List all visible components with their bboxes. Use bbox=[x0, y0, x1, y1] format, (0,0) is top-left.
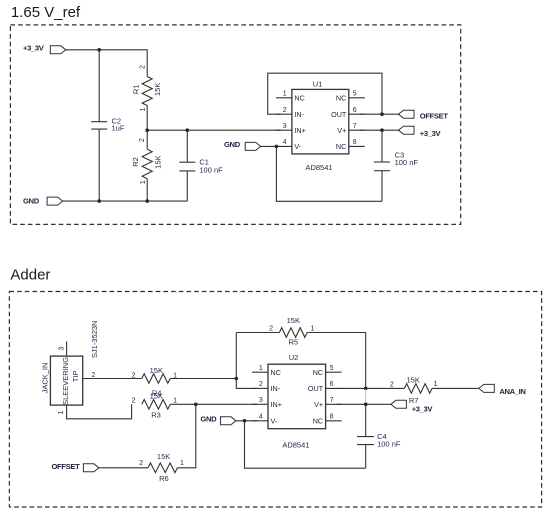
wire R7 to ANA_IN bbox=[432, 387, 479, 389]
svg-text:1: 1 bbox=[140, 180, 147, 184]
svg-text:15K: 15K bbox=[287, 316, 300, 325]
net flag OFFSET (input, adder) bbox=[52, 462, 99, 472]
svg-text:7: 7 bbox=[353, 123, 357, 130]
U2 pin 3 IN+ stub bbox=[252, 403, 268, 405]
resistor R5 15K feedback (horizontal) bbox=[279, 316, 307, 347]
wire V+ to +3_3V flag (adder) bbox=[337, 403, 391, 405]
svg-text:NC: NC bbox=[294, 93, 304, 102]
power flag +3_3V (at U2 V+) bbox=[391, 400, 434, 413]
svg-text:+3_3V: +3_3V bbox=[23, 43, 45, 52]
svg-text:NC: NC bbox=[271, 368, 281, 377]
U2 pin 8 NC stub bbox=[326, 420, 342, 422]
svg-text:R5: R5 bbox=[289, 337, 299, 346]
svg-text:+3_3V: +3_3V bbox=[412, 404, 434, 413]
svg-text:15K: 15K bbox=[150, 392, 163, 401]
wire V- to C3 ground return bbox=[276, 146, 382, 201]
svg-text:TIP: TIP bbox=[71, 370, 80, 382]
svg-text:GND: GND bbox=[200, 414, 217, 423]
U1 pin 1 NC stub bbox=[276, 97, 292, 99]
svg-text:2: 2 bbox=[139, 460, 143, 467]
wire R4 out to feedback node bbox=[170, 378, 236, 380]
svg-text:3: 3 bbox=[259, 397, 263, 404]
svg-text:Adder: Adder bbox=[10, 266, 50, 283]
wire R6 riser to IN+ line bbox=[177, 404, 195, 468]
V_ref section dashed boundary bbox=[10, 25, 460, 225]
jack pin 2 TIP wire to R4 bbox=[83, 378, 142, 380]
U2 pin 5 NC stub bbox=[326, 371, 342, 373]
resistor R4 15K (horizontal) bbox=[142, 366, 170, 397]
U1 pin 5 NC stub bbox=[349, 97, 365, 99]
svg-text:SJ1-3523N: SJ1-3523N bbox=[90, 321, 99, 359]
svg-text:1: 1 bbox=[180, 460, 184, 467]
svg-text:2: 2 bbox=[390, 381, 394, 388]
svg-text:6: 6 bbox=[353, 107, 357, 114]
svg-text:100 nF: 100 nF bbox=[199, 165, 223, 174]
svg-text:IN-: IN- bbox=[294, 110, 304, 119]
capacitor C1 100nF bbox=[179, 130, 223, 201]
wire R3 out to IN+ bbox=[170, 403, 257, 405]
U1 pin 4 V- stub bbox=[276, 145, 292, 147]
svg-text:V+: V+ bbox=[337, 126, 346, 135]
U2 pin 6 OUT stub bbox=[326, 387, 342, 389]
svg-text:IN-: IN- bbox=[271, 384, 281, 393]
svg-text:15K: 15K bbox=[407, 376, 420, 385]
jack pin 1 stub bbox=[67, 404, 132, 419]
svg-text:NC: NC bbox=[336, 142, 346, 151]
svg-text:OFFSET: OFFSET bbox=[420, 112, 449, 121]
wire R1 bottom to divider node bbox=[146, 106, 148, 131]
junction V- down leg bbox=[275, 145, 279, 149]
svg-text:1: 1 bbox=[434, 381, 438, 388]
svg-text:NC: NC bbox=[313, 368, 323, 377]
junction C1 tap bbox=[186, 128, 190, 132]
svg-text:1: 1 bbox=[259, 365, 263, 372]
wire faint segment C4 vertical bbox=[365, 389, 367, 404]
svg-text:1: 1 bbox=[58, 411, 65, 415]
svg-text:R2: R2 bbox=[131, 157, 140, 167]
svg-text:1uF: 1uF bbox=[112, 123, 125, 132]
U1 pin 8 NC stub bbox=[349, 145, 365, 147]
svg-text:V+: V+ bbox=[314, 400, 323, 409]
power flag +3_3V (top left) bbox=[23, 43, 66, 54]
capacitor C2 bbox=[91, 117, 125, 133]
svg-text:100 nF: 100 nF bbox=[395, 158, 419, 167]
svg-text:2: 2 bbox=[269, 325, 273, 332]
U1 pin 7 V+ stub bbox=[349, 129, 365, 131]
junction U2 V- down leg bbox=[243, 419, 247, 423]
svg-text:2: 2 bbox=[91, 372, 95, 379]
wire R5 right leg down to OUT bbox=[307, 333, 366, 389]
svg-text:1: 1 bbox=[140, 107, 147, 111]
capacitor C3 100nF bbox=[374, 130, 418, 201]
svg-text:2: 2 bbox=[132, 373, 136, 380]
svg-text:5: 5 bbox=[330, 365, 334, 372]
svg-text:2: 2 bbox=[132, 398, 136, 405]
junction divider midpoint bbox=[145, 128, 149, 132]
svg-text:100 nF: 100 nF bbox=[377, 440, 401, 449]
svg-text:NC: NC bbox=[313, 416, 323, 425]
wire feedback node down to IN- bbox=[236, 333, 257, 389]
U2 pin 1 NC stub bbox=[252, 371, 268, 373]
svg-text:ANA_IN: ANA_IN bbox=[499, 387, 525, 396]
resistor R3 15K (horizontal) bbox=[142, 392, 170, 420]
junction OUT/feedback bbox=[380, 112, 384, 116]
svg-text:R1: R1 bbox=[131, 85, 140, 95]
svg-text:IN+: IN+ bbox=[271, 400, 282, 409]
U1 pin 6 OUT stub bbox=[349, 113, 365, 115]
svg-text:OUT: OUT bbox=[331, 110, 347, 119]
svg-text:1.65 V_ref: 1.65 V_ref bbox=[11, 4, 81, 21]
svg-text:5: 5 bbox=[353, 91, 357, 98]
svg-text:15K: 15K bbox=[157, 452, 170, 461]
svg-text:V-: V- bbox=[271, 416, 278, 425]
wire R5 left leg bbox=[236, 332, 279, 334]
svg-text:1: 1 bbox=[311, 325, 315, 332]
wire feedback loop OUT to IN- bbox=[268, 73, 382, 114]
svg-text:AD8541: AD8541 bbox=[282, 441, 309, 450]
wire OUT to OFFSET flag bbox=[360, 113, 400, 115]
U1 pin 2 IN- stub bbox=[276, 113, 292, 115]
svg-text:SLEEVERING: SLEEVERING bbox=[61, 357, 70, 405]
junction V+/C4 bbox=[364, 403, 368, 407]
svg-text:8: 8 bbox=[353, 139, 357, 146]
svg-text:NC: NC bbox=[336, 93, 346, 102]
wire V- ground return to C4 bbox=[245, 421, 366, 468]
U2 pin 4 V- stub bbox=[252, 420, 268, 422]
U1 pin 3 IN+ stub bbox=[276, 129, 292, 131]
svg-text:V-: V- bbox=[294, 142, 301, 151]
op-amp U1 AD8541 body bbox=[292, 80, 349, 172]
svg-text:+3_3V: +3_3V bbox=[420, 129, 442, 138]
node divider midpoint to IN+ bbox=[147, 129, 281, 131]
junction R6 riser on IN+ line bbox=[194, 403, 198, 407]
svg-text:OFFSET: OFFSET bbox=[52, 462, 81, 471]
resistor R7 15K (horizontal) bbox=[404, 376, 432, 405]
wire OUT row to R7 bbox=[337, 387, 405, 389]
power flag +3_3V (at U1 V+) bbox=[399, 126, 442, 138]
resistor R1 15K (vertical) bbox=[131, 77, 161, 106]
ground flag GND (at U1 V-) bbox=[224, 140, 261, 150]
svg-text:IN+: IN+ bbox=[294, 126, 305, 135]
svg-text:2: 2 bbox=[283, 107, 287, 114]
wire C2 bottom lead bbox=[98, 129, 100, 201]
svg-text:3: 3 bbox=[283, 123, 287, 130]
svg-text:R6: R6 bbox=[159, 474, 169, 483]
junction OUT/R5 leg bbox=[364, 387, 368, 391]
svg-text:R3: R3 bbox=[151, 411, 161, 420]
svg-text:JACK_IN: JACK_IN bbox=[40, 363, 49, 394]
svg-text:1: 1 bbox=[173, 398, 177, 405]
svg-text:8: 8 bbox=[330, 414, 334, 421]
svg-text:OUT: OUT bbox=[308, 384, 324, 393]
svg-text:1: 1 bbox=[283, 91, 287, 98]
ground flag GND (bottom left) bbox=[23, 196, 63, 205]
svg-text:2: 2 bbox=[139, 138, 146, 142]
svg-text:2: 2 bbox=[259, 381, 263, 388]
svg-text:15K: 15K bbox=[153, 155, 162, 168]
wire V+ to +3_3V flag bbox=[360, 129, 400, 131]
resistor R2 15K (vertical) bbox=[131, 130, 162, 201]
connector J1 JACK_IN SJ1-3523N body bbox=[40, 321, 99, 406]
wire +3_3V rail to R1 bbox=[66, 50, 147, 77]
ground flag GND (at U2 V-) bbox=[200, 414, 236, 425]
svg-text:6: 6 bbox=[330, 381, 334, 388]
svg-text:15K: 15K bbox=[153, 83, 162, 96]
svg-text:3: 3 bbox=[58, 346, 65, 350]
wire GND to V- bbox=[261, 145, 281, 147]
junction R4/feedback node bbox=[235, 377, 239, 381]
svg-text:GND: GND bbox=[23, 196, 40, 205]
svg-text:4: 4 bbox=[259, 414, 263, 421]
wire GND to U2 V- bbox=[236, 420, 257, 422]
svg-text:U1: U1 bbox=[313, 80, 323, 89]
net flag OFFSET (output) bbox=[399, 110, 449, 120]
resistor R6 15K (horizontal) bbox=[148, 452, 177, 483]
capacitor C4 100nF bbox=[357, 404, 401, 468]
Adder section dashed boundary bbox=[9, 292, 541, 508]
jack pin 3 stub bbox=[66, 342, 68, 357]
svg-text:U2: U2 bbox=[289, 353, 299, 362]
wire C2 top lead bbox=[98, 50, 100, 122]
junction R2 bottom on GND rail bbox=[145, 199, 149, 203]
svg-text:4: 4 bbox=[283, 139, 287, 146]
U2 pin 2 IN- stub bbox=[252, 387, 268, 389]
op-amp U2 AD8541 body bbox=[268, 353, 326, 449]
wire OFFSET to R6 bbox=[99, 467, 148, 469]
junction C2 tap on +3_3V rail bbox=[97, 48, 101, 52]
wire GND rail bbox=[63, 200, 188, 202]
svg-text:2: 2 bbox=[140, 65, 147, 69]
junction C2 bottom on GND rail bbox=[97, 199, 101, 203]
net flag ANA_IN (output) bbox=[479, 384, 526, 396]
svg-text:15K: 15K bbox=[150, 366, 163, 375]
U2 pin 7 V+ stub bbox=[326, 403, 342, 405]
svg-text:AD8541: AD8541 bbox=[305, 163, 332, 172]
svg-text:7: 7 bbox=[330, 397, 334, 404]
junction V+/C3 bbox=[380, 128, 384, 132]
svg-text:GND: GND bbox=[224, 140, 241, 149]
